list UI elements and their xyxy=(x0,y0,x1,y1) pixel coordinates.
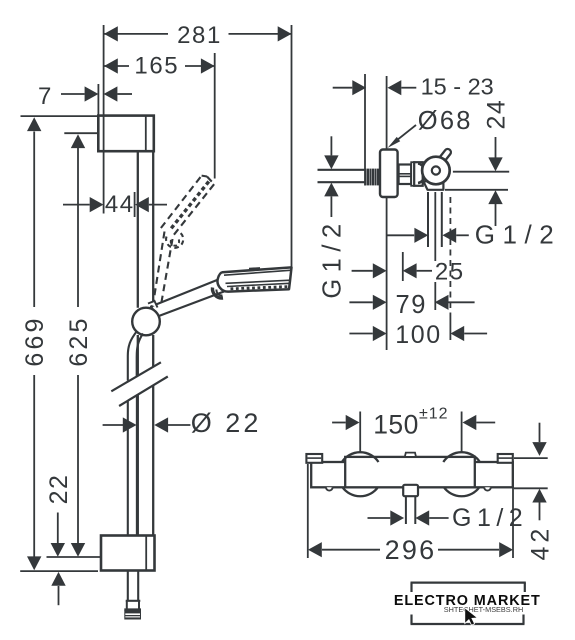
wall tab left xyxy=(306,454,322,463)
union circle left xyxy=(342,452,379,496)
mixer body xyxy=(311,462,513,487)
dimension diameter 22 line xyxy=(103,417,191,432)
mixer top badge xyxy=(405,453,416,457)
diameter 68 label xyxy=(418,107,473,135)
dimension 296 line xyxy=(308,542,513,557)
reference line y=458 xyxy=(514,457,548,459)
hose fitting cone xyxy=(124,601,141,610)
cursor arrow xyxy=(465,608,478,625)
extension line x=214.7 (165 right) xyxy=(214,53,216,179)
slider ball xyxy=(132,301,160,335)
dashed hand shower alternate position xyxy=(153,176,214,306)
connector nut xyxy=(399,165,412,185)
svg-text:625: 625 xyxy=(65,315,93,366)
line y=190 xyxy=(445,189,508,191)
dimension 100 line xyxy=(349,326,487,341)
dimension 22 label xyxy=(45,474,73,505)
dimension 22 line xyxy=(51,513,66,606)
mixer outlet xyxy=(403,485,418,496)
dimension 42 line xyxy=(532,423,546,521)
svg-text:79: 79 xyxy=(396,291,428,319)
holder cone xyxy=(414,162,424,186)
dimension 44 line xyxy=(63,197,167,212)
svg-text:Ø 22: Ø 22 xyxy=(191,408,262,438)
centerline right of knob xyxy=(453,171,509,173)
wall line x=386.6 xyxy=(386,76,388,350)
dimension 669 line xyxy=(27,117,41,570)
svg-text:669: 669 xyxy=(21,315,49,366)
svg-text:G1/2: G1/2 xyxy=(452,504,528,532)
svg-text:24: 24 xyxy=(483,99,511,130)
extension line x=134.6 (44 right) xyxy=(134,192,136,217)
dimension 25 line xyxy=(352,263,432,278)
dimension 100 label xyxy=(395,321,442,349)
svg-text:±12: ±12 xyxy=(419,406,449,423)
dimension 15-23 line xyxy=(333,80,417,95)
dimension 669 label xyxy=(21,315,49,366)
reference line top y=116 xyxy=(21,115,98,117)
reference line y=133.2 xyxy=(64,132,97,134)
bottom wall bracket box xyxy=(101,536,155,571)
holder hook flap xyxy=(424,179,444,190)
hand shower head xyxy=(217,267,291,292)
svg-text:G1/2: G1/2 xyxy=(475,220,561,250)
G 1/2 right label xyxy=(475,220,561,250)
outlet pipe xyxy=(406,496,415,524)
dimension 42 label xyxy=(527,525,555,561)
rail bar xyxy=(138,151,153,535)
svg-text:150: 150 xyxy=(373,409,418,439)
bottom ear left xyxy=(326,487,333,490)
dimension diameter 22 label xyxy=(191,408,262,438)
dimension 625 line xyxy=(71,134,85,557)
dimension 24 label xyxy=(483,99,511,130)
dimension 79 line xyxy=(349,295,474,310)
bottom ear right xyxy=(484,487,491,490)
dimension 79 label xyxy=(396,291,428,319)
mixer central section xyxy=(345,457,475,487)
dimension 625 label xyxy=(65,315,93,366)
holder knob xyxy=(422,157,450,185)
extension dashed x=450.4 xyxy=(449,197,451,340)
dimension 15-23 label xyxy=(421,74,494,100)
top wall bracket box xyxy=(98,116,154,152)
logo text ELECTRO MARKET xyxy=(394,593,541,609)
svg-text:15 - 23: 15 - 23 xyxy=(421,74,494,100)
svg-text:100: 100 xyxy=(395,321,442,349)
svg-text:22: 22 xyxy=(45,474,73,505)
logo frame xyxy=(411,583,526,624)
dimension 281 label xyxy=(177,22,222,49)
svg-text:Ø68: Ø68 xyxy=(418,107,473,135)
pipe below holder xyxy=(428,192,442,310)
thread nipple xyxy=(366,169,381,186)
svg-text:25: 25 xyxy=(435,258,465,285)
wall disc escutcheon xyxy=(380,150,398,198)
dimension 150 label xyxy=(373,406,448,440)
dimension 281 line xyxy=(104,26,292,41)
pipe diameter dimension arrows xyxy=(324,136,338,217)
dimension 165 line xyxy=(104,58,215,73)
svg-text:44: 44 xyxy=(105,191,135,218)
svg-text:296: 296 xyxy=(385,535,437,565)
reference line bottom y=571 xyxy=(20,570,98,572)
dimension G 1/2 right line xyxy=(387,228,469,243)
supply pipe xyxy=(318,170,366,182)
diameter 68 leader xyxy=(388,125,416,148)
extension line left reference x=103.5 xyxy=(103,25,105,214)
logo subtitle xyxy=(444,605,523,614)
extension x=402.8 xyxy=(402,252,404,281)
shower hose upper curve xyxy=(128,331,143,381)
dimension 24 line xyxy=(488,137,502,226)
svg-text:42: 42 xyxy=(527,525,555,561)
dimension 44 label xyxy=(105,191,135,218)
knob tab xyxy=(437,148,452,165)
extension line x=291.5 (281 right) xyxy=(291,25,293,268)
G 1/2 mixer label xyxy=(452,504,528,532)
dimension 165 label xyxy=(134,53,179,80)
dimension G 1/2 mixer line xyxy=(368,510,449,525)
extension lines 150 xyxy=(360,412,461,453)
svg-text:281: 281 xyxy=(177,22,222,49)
hose fitting nut xyxy=(124,610,141,620)
union circle right xyxy=(443,452,480,496)
dimension 7 line xyxy=(61,86,132,101)
shower hose lower xyxy=(128,392,138,601)
wall tab right xyxy=(498,454,513,463)
break mark xyxy=(111,362,168,406)
dimension 150 line xyxy=(332,415,495,430)
dimension 7 label xyxy=(38,83,53,110)
svg-text:7: 7 xyxy=(38,83,53,110)
hand shower joint xyxy=(212,288,223,299)
dimension 296 label xyxy=(385,535,437,565)
reference line y=488 xyxy=(514,487,548,489)
dimension 25 label xyxy=(435,258,465,285)
extension line x=98.4 xyxy=(97,84,99,115)
svg-text:SHTECHET-MSEBS.RH: SHTECHET-MSEBS.RH xyxy=(444,605,523,614)
extension lines 296 xyxy=(308,464,513,558)
wall line x=365 xyxy=(364,74,366,186)
svg-text:165: 165 xyxy=(134,53,179,80)
reference line y=557 xyxy=(47,556,102,558)
svg-text:G1/2: G1/2 xyxy=(319,217,347,298)
G 1/2 left label xyxy=(319,217,347,298)
spacer plate xyxy=(411,162,414,186)
hand shower handle xyxy=(151,279,224,317)
